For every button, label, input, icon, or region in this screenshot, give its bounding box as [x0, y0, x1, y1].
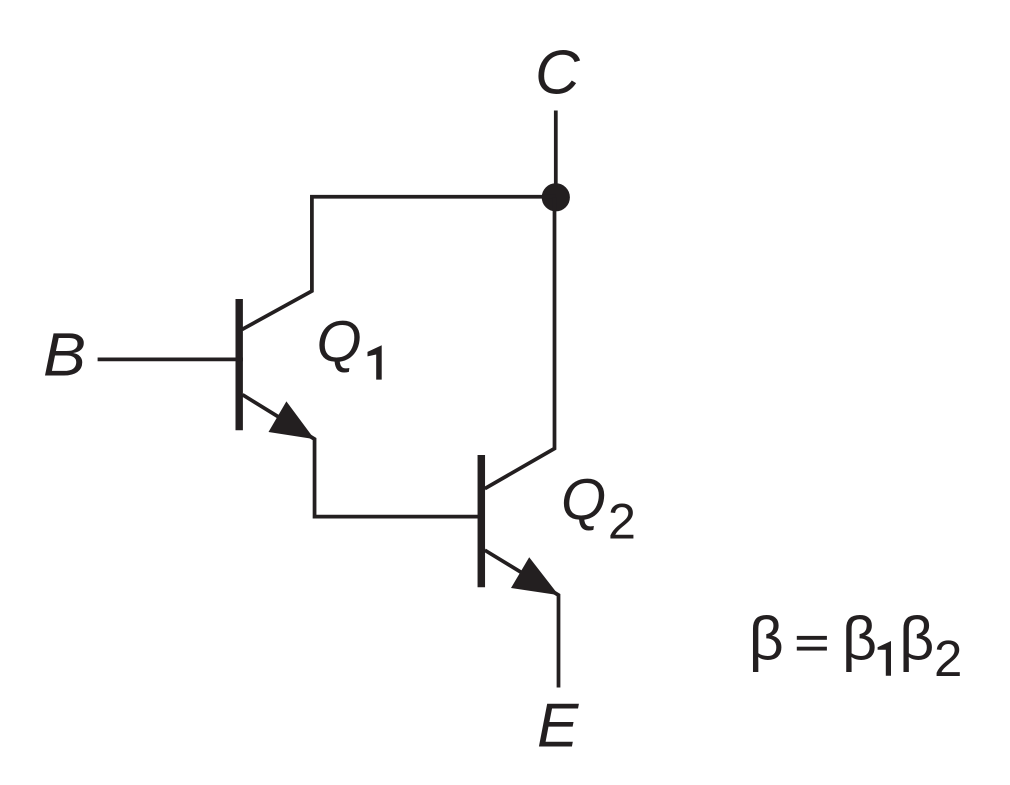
formula subscript 1 [878, 641, 891, 676]
svg-text:β: β [899, 605, 934, 673]
transistor Q2 base bar [478, 455, 486, 587]
wire: base lead from B to Q1 [98, 358, 243, 362]
transistor Q1 emitter arrow [269, 401, 315, 439]
svg-text:β: β [842, 605, 877, 673]
label Q1 subscript 1 [368, 345, 382, 379]
wire: Q1 emitter (diagonal, drop and run to Q2 base) [243, 395, 486, 517]
transistor Q1 base bar [235, 299, 242, 430]
formula equals sign [797, 636, 827, 640]
transistor Q2 emitter arrow [511, 557, 559, 595]
svg-text:β: β [749, 605, 784, 673]
svg-text:Q: Q [561, 468, 606, 533]
svg-text:C: C [535, 39, 581, 108]
svg-text:B: B [43, 320, 86, 388]
wire: Q2 emitter (diagonal and lead down to E) [485, 550, 559, 687]
wire: Q1 collector (diagonal, riser and top run to junction) [242, 197, 556, 330]
svg-text:E: E [537, 692, 579, 761]
node: collector junction dot [542, 183, 570, 211]
formula: beta = beta1 beta2 [749, 605, 963, 688]
svg-text:2: 2 [934, 630, 962, 687]
svg-text:2: 2 [608, 492, 636, 549]
wire: collector lead down from C [554, 111, 558, 198]
svg-text:Q: Q [317, 310, 362, 375]
wire: Q2 collector (diagonal and riser to junction) [485, 197, 555, 488]
